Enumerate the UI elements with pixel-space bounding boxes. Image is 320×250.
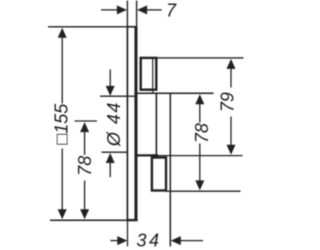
dim square155 top arrow (58, 28, 67, 38)
dim square155 line lower segment (61, 149, 63, 212)
dim 7 right arrow (137, 5, 147, 14)
dim 34 right arrow (points left) (171, 236, 181, 245)
wall plate side view (127, 27, 136, 220)
svg-text:7: 7 (166, 0, 177, 20)
dim 78 left bottom arrow (80, 209, 89, 219)
dim diam44 top extension line (100, 95, 137, 97)
dim diam44 bottom arrow shaft (109, 162, 111, 177)
dim square155 bottom arrow (58, 209, 67, 219)
dim 7 left arrow (117, 5, 127, 14)
svg-text:78: 78 (192, 123, 212, 143)
plate bottom edge (thicker) (126, 219, 137, 221)
svg-text:78: 78 (75, 156, 95, 176)
extension line to dim 78 right bottom (166, 190, 241, 192)
dim 7 left tail (101, 9, 118, 11)
extension line left of dim 7 (126, 1, 128, 27)
extension line from handle top to dim 79 (156, 57, 243, 59)
dim 79 top arrow (points up) (227, 59, 236, 69)
extension line left of dim 34 (127, 220, 129, 246)
svg-text:□155: □155 (51, 103, 71, 145)
dim 34 left arrow (points right) (117, 236, 127, 245)
dim 78 left line upper segment (84, 131, 86, 155)
dim 78 right top arrow (points up) (195, 94, 204, 104)
dim 79 bottom arrow (points down) (227, 145, 236, 155)
dim 78 right bottom arrow (points down) (195, 180, 204, 190)
knob face front edge, extended down to dim 34 (169, 94, 171, 247)
handle skirt line / extension to dim 78 right (137, 92, 214, 94)
svg-text:34: 34 (136, 231, 161, 250)
plate front edge (thicker) (134, 27, 137, 220)
dim 78 left line lower segment (84, 181, 86, 212)
svg-text:79: 79 (218, 92, 238, 112)
top extension line to dim square155 (48, 26, 127, 28)
dim 78 left top arrow (80, 122, 89, 132)
dim square155 line upper segment (61, 37, 63, 104)
dim 78 right line lower segment (199, 144, 201, 183)
dim 79 line upper segment (230, 68, 232, 88)
dim diam44 bottom arrow (points up) (106, 153, 115, 163)
dim 79 line lower segment (230, 117, 232, 147)
dim diam44 bottom extension line (102, 151, 128, 153)
dim diam44 top arrow shaft (109, 70, 111, 88)
upper handle grip (141, 58, 157, 90)
dim 34 left tail (110, 240, 118, 242)
upper handle inner contour (152, 59, 154, 93)
dim 78 right line upper segment (199, 103, 201, 123)
dim 34 right tail (180, 240, 203, 242)
svg-text:Ø 44: Ø 44 (104, 101, 124, 147)
extension line for dim 78 left (75, 120, 97, 122)
extension line to dim 79 bottom (158, 155, 243, 157)
extension line right of dim 7 (136, 1, 138, 27)
dim 7 right tail (147, 9, 162, 11)
junction between knob base bottom and lower handle top (152, 154, 157, 158)
bottom extension line to dim square155 (50, 219, 126, 221)
knob base bottom edge (137, 154, 158, 156)
dim diam44 top arrow (points down) (106, 86, 115, 96)
lower handle grip (152, 158, 166, 191)
knob base front edge (155, 93, 157, 155)
